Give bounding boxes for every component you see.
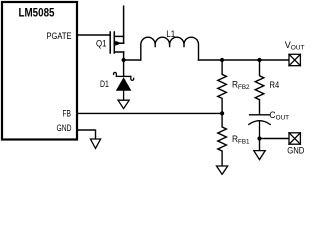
wire L1 to VOUT terminal (199, 59, 290, 61)
wire switch node down to D1 (123, 60, 125, 76)
wire COUT node down to ground (259, 139, 261, 151)
ground symbol below COUT node (254, 151, 265, 160)
svg-text:LM5085: LM5085 (19, 6, 55, 20)
wire PGATE pin to Q1 gate (77, 34, 110, 36)
ground symbol below D1 (118, 100, 129, 108)
svg-text:R4: R4 (270, 80, 280, 90)
ground symbol below GND pin (90, 139, 100, 148)
wire switch node to L1 (124, 59, 141, 61)
wire GND pin to ground (77, 130, 96, 139)
svg-text:FB: FB (63, 109, 72, 120)
node output / R4 junction (257, 58, 261, 62)
svg-text:L1: L1 (166, 29, 175, 39)
svg-text:D1: D1 (100, 79, 109, 89)
node FB junction (220, 111, 224, 115)
resistor R4 (255, 60, 264, 115)
terminal GND (boxed X) (289, 133, 300, 144)
wire COUT node to GND terminal (260, 138, 290, 140)
node COUT / GND junction (257, 136, 261, 140)
svg-text:COUT: COUT (269, 110, 289, 122)
svg-text:RFB1: RFB1 (232, 134, 250, 146)
terminal VOUT (boxed X) (289, 54, 300, 65)
IC U1 LM5085 box (2, 2, 77, 140)
resistor RFB2 (218, 60, 227, 113)
node output / RFB2 junction (220, 58, 224, 62)
wire FB pin to divider node (77, 112, 222, 114)
svg-text:GND: GND (57, 123, 72, 134)
ground symbol below RFB1 (217, 166, 228, 174)
svg-text:PGATE: PGATE (47, 31, 72, 42)
svg-text:RFB2: RFB2 (232, 80, 250, 92)
svg-text:VOUT: VOUT (285, 40, 305, 52)
transistor Q1 (PMOS) (110, 6, 123, 60)
inductor L1 (141, 37, 199, 60)
svg-text:GND: GND (287, 145, 304, 156)
resistor RFB1 (218, 113, 227, 166)
capacitor COUT (polarized) (249, 115, 271, 139)
svg-text:Q1: Q1 (96, 38, 107, 48)
node switch junction (122, 58, 126, 62)
diode D1 (Schottky) (114, 72, 134, 100)
